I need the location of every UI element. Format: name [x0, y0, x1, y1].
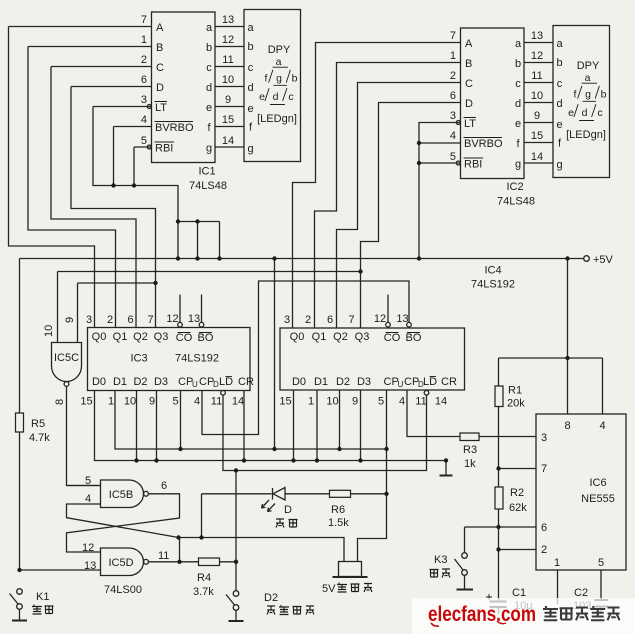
svg-text:6: 6 — [161, 480, 167, 492]
svg-text:7: 7 — [541, 463, 547, 475]
svg-text:8: 8 — [565, 420, 571, 432]
svg-text:10: 10 — [124, 396, 136, 408]
svg-text:LD: LD — [219, 376, 233, 388]
svg-text:12: 12 — [374, 313, 386, 325]
svg-text:R1: R1 — [508, 385, 522, 397]
svg-text:9: 9 — [352, 396, 358, 408]
svg-text:4: 4 — [399, 396, 405, 408]
svg-text:3: 3 — [541, 432, 547, 444]
svg-text:d: d — [582, 107, 588, 119]
svg-text:D1: D1 — [113, 376, 127, 388]
svg-text:[LEDgn]: [LEDgn] — [257, 113, 297, 125]
svg-text:11: 11 — [211, 396, 222, 408]
svg-text:B: B — [465, 58, 472, 70]
svg-text:Q2: Q2 — [133, 331, 148, 343]
svg-text:5: 5 — [172, 396, 178, 408]
svg-text:IC6: IC6 — [589, 477, 606, 489]
svg-text:74LS192: 74LS192 — [471, 279, 515, 291]
svg-text:62k: 62k — [509, 502, 527, 514]
svg-text:13: 13 — [84, 560, 96, 572]
svg-text:D2: D2 — [336, 376, 350, 388]
svg-text:LT: LT — [464, 118, 476, 130]
svg-text:Q1: Q1 — [312, 331, 327, 343]
svg-text:15: 15 — [531, 130, 543, 142]
svg-text:IC5D: IC5D — [108, 557, 133, 569]
svg-text:D: D — [284, 504, 292, 516]
svg-text:2: 2 — [107, 314, 113, 326]
svg-text:14: 14 — [222, 135, 234, 147]
svg-text:c: c — [597, 107, 602, 119]
svg-text:D0: D0 — [292, 376, 306, 388]
svg-text:6: 6 — [327, 314, 333, 326]
svg-text:a: a — [247, 22, 254, 34]
svg-text:7: 7 — [147, 314, 153, 326]
svg-text:6: 6 — [450, 90, 456, 102]
svg-text:D3: D3 — [357, 376, 371, 388]
svg-text:7: 7 — [141, 14, 147, 26]
svg-text:10: 10 — [222, 74, 234, 86]
svg-text:4: 4 — [194, 396, 200, 408]
svg-text:R3: R3 — [463, 444, 477, 456]
svg-text:d: d — [556, 98, 562, 110]
svg-text:15: 15 — [279, 396, 291, 408]
svg-text:K3: K3 — [434, 554, 447, 566]
svg-text:CP: CP — [178, 376, 193, 388]
svg-text:1: 1 — [108, 396, 114, 408]
svg-text:14: 14 — [435, 396, 447, 408]
svg-text:12: 12 — [166, 313, 178, 325]
svg-text:D: D — [465, 98, 473, 110]
svg-text:R6: R6 — [331, 504, 345, 516]
svg-text:5: 5 — [85, 475, 91, 487]
svg-text:10: 10 — [326, 396, 338, 408]
svg-text:3: 3 — [450, 110, 456, 122]
svg-text:A: A — [156, 22, 164, 34]
svg-text:20k: 20k — [507, 398, 525, 410]
svg-text:13: 13 — [188, 313, 200, 325]
svg-text:9: 9 — [225, 94, 231, 106]
svg-text:K1: K1 — [36, 591, 49, 603]
svg-text:BVRBO: BVRBO — [155, 122, 194, 134]
svg-text:12: 12 — [82, 542, 94, 554]
svg-text:R2: R2 — [510, 487, 524, 499]
svg-text:CP: CP — [404, 376, 419, 388]
svg-text:4: 4 — [141, 114, 147, 126]
svg-text:d: d — [206, 82, 212, 94]
svg-text:11: 11 — [158, 550, 169, 562]
svg-text:C: C — [465, 78, 473, 90]
svg-text:10: 10 — [43, 325, 55, 337]
svg-text:e: e — [206, 102, 212, 114]
svg-text:NE555: NE555 — [581, 493, 615, 505]
svg-text:IC3: IC3 — [130, 353, 147, 365]
svg-text:g: g — [515, 159, 521, 171]
svg-text:g: g — [556, 159, 562, 171]
svg-text:LD: LD — [423, 376, 437, 388]
svg-text:Q3: Q3 — [355, 331, 370, 343]
svg-text:1: 1 — [554, 557, 560, 569]
svg-text:a: a — [556, 38, 563, 50]
svg-text:11: 11 — [222, 54, 233, 66]
svg-text:6: 6 — [127, 314, 133, 326]
svg-text:Q3: Q3 — [154, 331, 169, 343]
svg-text:2: 2 — [141, 54, 147, 66]
svg-text:c: c — [206, 62, 212, 74]
svg-text:D3: D3 — [154, 376, 168, 388]
svg-text:CR: CR — [441, 376, 457, 388]
svg-text:14: 14 — [531, 151, 543, 163]
svg-text:8: 8 — [54, 399, 66, 405]
svg-text:[LEDgn]: [LEDgn] — [566, 129, 606, 141]
svg-text:3: 3 — [86, 314, 92, 326]
svg-text:c: c — [288, 91, 293, 103]
svg-text:c: c — [248, 62, 254, 74]
svg-text:b: b — [247, 41, 253, 53]
svg-text:b: b — [515, 58, 521, 70]
svg-text:d: d — [515, 98, 521, 110]
svg-text:a: a — [276, 56, 282, 68]
svg-text:RBI: RBI — [464, 159, 482, 171]
svg-text:12: 12 — [222, 34, 234, 46]
svg-text:BO: BO — [198, 332, 214, 344]
svg-text:1: 1 — [450, 50, 456, 62]
svg-text:c: c — [515, 78, 521, 90]
svg-text:IC4: IC4 — [484, 265, 501, 277]
svg-text:b: b — [206, 42, 212, 54]
svg-text:elecfans.com: elecfans.com — [428, 603, 536, 626]
svg-text:3: 3 — [141, 94, 147, 106]
svg-text:6: 6 — [141, 74, 147, 86]
svg-text:15: 15 — [222, 114, 234, 126]
svg-text:14: 14 — [232, 396, 244, 408]
svg-text:+5V: +5V — [593, 254, 614, 266]
svg-text:DPY: DPY — [268, 44, 291, 56]
svg-text:4: 4 — [85, 493, 91, 505]
svg-text:CO: CO — [176, 332, 193, 344]
svg-text:IC1: IC1 — [198, 166, 215, 178]
svg-text:e: e — [515, 118, 521, 130]
svg-text:A: A — [465, 38, 473, 50]
svg-text:13: 13 — [531, 30, 543, 42]
svg-text:74LS192: 74LS192 — [175, 353, 219, 365]
svg-text:74LS48: 74LS48 — [189, 180, 227, 192]
svg-text:R4: R4 — [197, 572, 211, 584]
svg-text:U: U — [398, 380, 404, 389]
svg-text:15: 15 — [80, 396, 92, 408]
svg-text:11: 11 — [531, 70, 542, 82]
svg-text:9: 9 — [149, 396, 155, 408]
svg-text:IC5C: IC5C — [54, 352, 79, 364]
svg-text:Q1: Q1 — [113, 331, 128, 343]
svg-text:C: C — [156, 62, 164, 74]
svg-text:1.5k: 1.5k — [328, 517, 349, 529]
svg-text:RBI: RBI — [155, 143, 173, 155]
svg-text:CP: CP — [384, 376, 399, 388]
svg-text:LT: LT — [155, 102, 167, 114]
svg-text:5: 5 — [450, 151, 456, 163]
svg-text:5: 5 — [141, 135, 147, 147]
svg-text:IC2: IC2 — [506, 181, 523, 193]
svg-text:4.7k: 4.7k — [29, 432, 50, 444]
svg-text:R5: R5 — [31, 418, 45, 430]
svg-text:4: 4 — [600, 420, 606, 432]
svg-text:f: f — [574, 89, 577, 101]
svg-text:9: 9 — [64, 317, 76, 323]
svg-text:U: U — [192, 380, 198, 389]
svg-text:7: 7 — [348, 314, 354, 326]
svg-text:C1: C1 — [512, 587, 526, 599]
svg-text:Q2: Q2 — [333, 331, 348, 343]
svg-text:5V: 5V — [322, 583, 336, 595]
svg-text:D2: D2 — [133, 376, 147, 388]
svg-text:b: b — [556, 57, 562, 69]
svg-text:e: e — [247, 103, 253, 115]
svg-text:CR: CR — [238, 376, 254, 388]
svg-text:1: 1 — [141, 34, 147, 46]
svg-text:b: b — [601, 89, 607, 101]
svg-text:1k: 1k — [464, 458, 476, 470]
svg-text:2: 2 — [450, 70, 456, 82]
svg-text:c: c — [557, 78, 563, 90]
svg-text:9: 9 — [534, 110, 540, 122]
svg-text:12: 12 — [531, 50, 543, 62]
svg-text:6: 6 — [541, 522, 547, 534]
svg-text:74LS00: 74LS00 — [104, 584, 142, 596]
svg-text:5: 5 — [378, 396, 384, 408]
svg-text:3: 3 — [284, 314, 290, 326]
svg-text:D: D — [156, 82, 164, 94]
svg-text:e: e — [568, 107, 574, 119]
svg-text:7: 7 — [450, 30, 456, 42]
svg-text:f: f — [265, 73, 268, 85]
svg-text:BO: BO — [406, 332, 422, 344]
svg-text:g: g — [206, 143, 212, 155]
svg-text:C2: C2 — [574, 587, 588, 599]
svg-text:a: a — [206, 22, 213, 34]
svg-text:Q0: Q0 — [290, 331, 305, 343]
svg-text:g: g — [276, 73, 282, 85]
svg-text:D2: D2 — [264, 592, 278, 604]
svg-text:2: 2 — [305, 314, 311, 326]
svg-text:1: 1 — [308, 396, 314, 408]
svg-text:D0: D0 — [92, 376, 106, 388]
svg-text:BVRBO: BVRBO — [464, 138, 503, 150]
svg-text:e: e — [259, 91, 265, 103]
svg-text:b: b — [292, 73, 298, 85]
svg-text:13: 13 — [222, 14, 234, 26]
svg-text:DPY: DPY — [577, 60, 600, 72]
svg-text:a: a — [515, 38, 522, 50]
svg-text:d: d — [273, 91, 279, 103]
svg-text:d: d — [247, 82, 253, 94]
svg-text:CO: CO — [384, 332, 401, 344]
svg-text:5: 5 — [598, 557, 604, 569]
svg-text:g: g — [585, 89, 591, 101]
svg-text:11: 11 — [415, 396, 426, 408]
svg-text:a: a — [585, 72, 591, 84]
svg-text:2: 2 — [541, 544, 547, 556]
svg-text:B: B — [156, 42, 163, 54]
svg-text:D1: D1 — [314, 376, 328, 388]
svg-text:Q0: Q0 — [92, 331, 107, 343]
svg-text:e: e — [556, 119, 562, 131]
svg-text:74LS48: 74LS48 — [497, 196, 535, 208]
svg-text:3.7k: 3.7k — [193, 586, 214, 598]
svg-text:IC5B: IC5B — [109, 489, 133, 501]
svg-text:CP: CP — [199, 376, 214, 388]
svg-text:4: 4 — [450, 130, 456, 142]
svg-text:10: 10 — [531, 90, 543, 102]
svg-text:g: g — [247, 143, 253, 155]
